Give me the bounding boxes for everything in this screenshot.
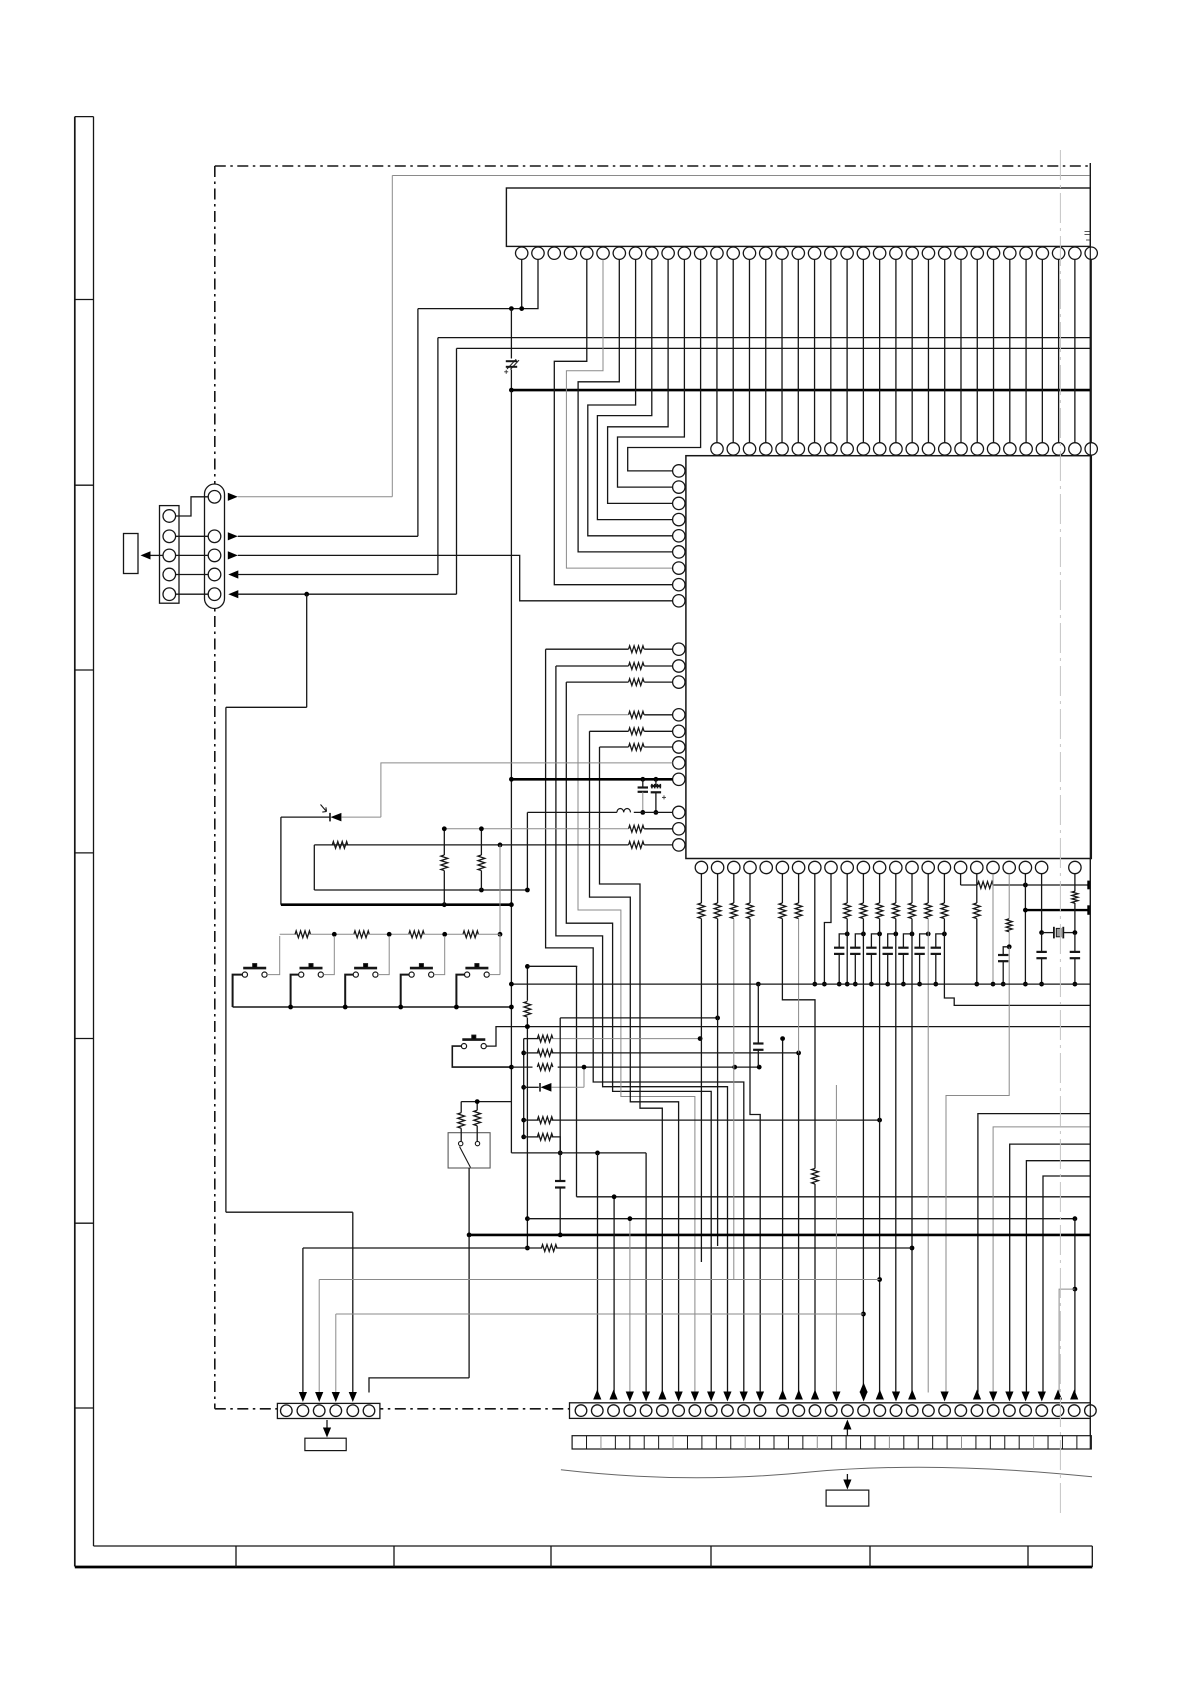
wire: branch from pin5 wire down and around to bottom connector CN-C pin5	[306, 594, 308, 707]
wire: IC bottom pin21 x=1025.4 drop: dot y=885, thick stub y=910.1, to rail	[1024, 874, 1026, 984]
designation box under wavy line with arrow	[846, 1474, 848, 1483]
fold mark: light grey vertical fold line (drawn on top)	[1059, 150, 1061, 1518]
wire: CN-D pin5 riser	[645, 1153, 647, 1393]
wire: CN-A pin1 grey wire right then up to top grey line	[238, 496, 392, 498]
wire: CN-A pin3 to IC pin A9 (down jog at x=519.7)	[238, 555, 673, 600]
wire y=1101.6 node to x=511.4	[461, 1101, 511, 1103]
resistor R-B3 on IC pin y=682.1	[644, 681, 672, 683]
harness wire from right edge y=1144.1 down at x=1009.7 to CN-D pin27	[1010, 1144, 1091, 1392]
wire y=1279.5 grey from CN-C pin3 to x=879.6	[318, 1280, 320, 1393]
component: small box (remote sensor) left of CN-B	[124, 534, 139, 574]
wire: CN-B pin4 to CN-A pin4	[176, 574, 209, 576]
board outline: chain-dot boundary bottom horizontal	[215, 1408, 1091, 1410]
wire: CN-D pin4 grey riser to line y=1218.7	[629, 1219, 631, 1393]
wire: photodiode anode down to thick key common rail	[280, 817, 282, 905]
wire: IC bottom pin20 x=1009.2 drop with resistor, cap tap, jog to CN-D pin23	[1008, 874, 1010, 919]
wire: IC bottom pin14 x=912.0 long drop with resistor to CN-D pin21	[911, 874, 913, 903]
wire bundle: straight drops top row to IC top pins	[716, 259, 718, 442]
connector CN-top partial pin circle at border	[1085, 247, 1097, 259]
wire: CN-D pin2 riser to y=1152.9	[597, 1153, 599, 1393]
capacitor C-b935 tap from pin vertical x=944.4	[936, 934, 945, 948]
wire: B3 route down-right zigzag staircase to CN-D pin9	[566, 682, 711, 1392]
wire: IC bottom pin10 x=847.2 drop with resistor	[846, 874, 848, 903]
resistor R-D3 line from IC pin y=844.9	[644, 844, 672, 846]
wire: D2 line corner up to y=1067.1	[583, 1067, 585, 1087]
capacitor C-f2 (electrolytic) at x=655.9	[655, 779, 657, 786]
wire: CN-D pin13 riser from R-t1 node	[782, 1039, 784, 1393]
stub: rail tap down to capacitor C-s2 x=758.3	[756, 982, 761, 987]
wire: SW6 left contact to y=1067.1 line	[452, 1046, 511, 1067]
wire: C3 route down-right zigzag staircase to CN-D pin6	[600, 747, 663, 1393]
connector CN-top: pin circles row	[516, 247, 528, 259]
resistor R-p2 vertical x=481.4	[478, 855, 485, 871]
wire: IC bottom pin7 x=798.6 grey drop with resistor to node y=1052.9 and CN-D pin14 riser	[798, 874, 800, 903]
wire: top pin c10 jog down-left to IC U1 left pin (y=503.4)	[608, 259, 673, 503]
sheet border: bottom inner frame line	[94, 1545, 1093, 1547]
thick key common rail y=904.7	[281, 903, 512, 906]
sheet border: bottom outer frame line (thick)	[75, 1566, 1093, 1569]
push switch SW6 near x=474	[461, 1044, 466, 1049]
wire y=1248.0 from CN-C pin2 with resistor R-u1 to x=912	[302, 1248, 304, 1393]
wire: IC bottom pin17 x=960.6 drop to y=885 with series resistor to edge terminal	[960, 874, 962, 885]
junction on net A at x=511.4	[509, 306, 514, 311]
resistor R-k0 on line y=844.9	[332, 842, 348, 849]
wire: top pin 1 drop to net A	[521, 259, 523, 308]
connector CN-C: 6-pin bottom-left connector body	[277, 1403, 380, 1418]
diode D2 on line y=1087.3	[524, 1086, 539, 1088]
wire: R-D3 net left leg down and along y=890 to x=527.4	[313, 845, 315, 890]
wire: top pin c11 jog down-left to IC U1 left pin (y=487.1)	[618, 259, 685, 487]
wire: IC bottom pin15 x=928.2 grey long drop with resistor to CN-D pin22	[927, 874, 929, 903]
wire: CN-B pin5 to CN-A pin5	[176, 593, 209, 595]
wire: IC bottom pin16 x=944.4 drop turning right at y=1005.4 to right edge	[943, 874, 945, 903]
inductor L1 on wire y=812.4	[634, 811, 673, 813]
arrow: CN-A pin4 input arrow left	[228, 570, 238, 578]
wire: IC bottom pin22 x=1041.6 drop to crystal node and cap	[1041, 874, 1043, 933]
harness wire from right edge y=1176.0 down at x=1043.0 to CN-D pin29	[1043, 1176, 1090, 1393]
wire: rotary switch common down to thick rail and CN-C pin6	[468, 1168, 470, 1235]
board outline: chain-dot boundary top horizontal	[215, 165, 1091, 167]
wire: IC bottom pin9 x=831.0 drop jog left to rail	[824, 874, 831, 984]
wire: top pin c8 jog down-left to IC U1 left pin (y=535.8)	[588, 259, 673, 535]
wire: SW3 right contact jog up to ladder	[378, 936, 389, 975]
wire: SW2 left contact thick leg down to common	[291, 975, 299, 1007]
connector CN-top: long rectangle body	[506, 188, 1090, 246]
harness wire from right edge y=1160.7 down at x=1026.4 to CN-D pin28	[1026, 1161, 1090, 1393]
capacitor C-b855 tap from pin vertical x=863.4	[855, 934, 863, 948]
wire: CN-B pin2 to CN-A pin2	[176, 535, 209, 537]
bus wire: thick horizontal power bus y=390.1	[511, 389, 1090, 392]
wire y=1017.9 from x=560.2 to IC pin drop x=717.6	[560, 1017, 717, 1019]
wire: IC bottom pin1 x=701.4 drop with resistor to node y=1038.6	[700, 874, 702, 903]
designation box under CN-C	[305, 1438, 346, 1450]
net A: horizontal wire y=308.6	[418, 308, 523, 310]
wire: SW6 right contact up to node y=1026.6	[486, 1027, 527, 1047]
IC U1: large QFP body rectangle	[686, 456, 1091, 859]
crystal X1 between x=1041.6 and x=1074.9	[1042, 932, 1054, 934]
display flex bar: hatched rectangle	[572, 1436, 1091, 1449]
wire: x=527.4 chain vertical with resistor R-s0	[526, 966, 528, 1000]
wire: C4 IC pin y=762.9 long wire left then down to photodiode	[381, 763, 673, 817]
wire: vertical x=576.5 down to long line y=1196.8	[576, 966, 578, 1196]
wire: vertical tap from net A down to thick rail, via capacitor C-osc	[510, 309, 512, 359]
resistor R-t1 grey line y=1038.6 to x=700.1	[524, 1038, 539, 1040]
keypad common return wire y=1007	[233, 1006, 512, 1008]
wire: SW5 left contact thick leg down to common	[456, 975, 464, 1007]
thick power wire into IC pin y=779.3	[511, 778, 672, 781]
push switch SW4: contacts and actuator	[409, 972, 414, 977]
harness wire from right edge y=1126.9 down at x=993.1 (grey) to CN-D pin26	[993, 1127, 1090, 1393]
wire: IC bottom pin3 x=733.8 grey long drop	[733, 874, 735, 903]
wire: SW1 left contact thick leg down to common	[233, 975, 243, 1007]
wire with left arrow into sensor box from CN-B pin3	[151, 554, 164, 556]
junction: grey riser x=500 top	[498, 843, 503, 848]
photodiode D1 with light arrow	[331, 813, 342, 822]
capacitor C-b919 tap from pin vertical x=928.2	[920, 934, 929, 948]
wire: CN-A pin2 to net A riser x=417.9	[238, 535, 418, 537]
connector CN-D: long 31-pin bottom connector body	[570, 1403, 1091, 1419]
IC U1: top pin circles row	[711, 443, 723, 455]
wire: SW2 right contact jog up to ladder	[323, 936, 334, 975]
arrow up from display bar into CN-D pin17	[846, 1429, 848, 1436]
thick terminal wire y=910.1 to edge bar	[1025, 909, 1088, 911]
wire: top pin c12 jog down-left to IC U1 left pin (y=470.9)	[628, 259, 701, 471]
arrow: CN-A pin5 input arrow left	[228, 590, 238, 598]
wire: B2 route down-right zigzag staircase to CN-D pin10	[556, 666, 728, 1393]
arrows on CN-D pins	[593, 1390, 601, 1400]
junction: thick rail meets x=511.4 vertical	[509, 388, 514, 393]
resistor R-t2 line y=1052.9 to x=798.6	[524, 1052, 539, 1054]
terminal bar at right edge y=885	[1087, 881, 1090, 890]
wire: LC filter line left then down via x=527.4	[527, 811, 617, 813]
wire: CN-B pin3 to CN-A pin3	[176, 554, 209, 556]
tiny clipped text fragment at right drawing edge	[1085, 231, 1090, 233]
push switch SW5: contacts and actuator	[465, 972, 470, 977]
connector CN-A: pin circles	[208, 491, 221, 504]
capacitor C-b903 tap from pin vertical x=912.0	[903, 934, 912, 948]
sheet border: right drawing-edge line	[1089, 163, 1091, 1449]
wire y=1152.9 from x=511.4 to CN-D pin5 riser	[511, 1152, 646, 1154]
wire: x=1074.9 drop with branch jog to CN-D pin30 (grey) and pin31	[1074, 1219, 1076, 1289]
double arrow on CN-D pin 18 wire	[860, 1383, 868, 1393]
resistor R-r1 above rotary switch	[458, 1113, 465, 1129]
connector CN-B: pin circles	[163, 510, 176, 523]
junction x=511.4 y=1067.1	[509, 1065, 514, 1070]
wire: IC bottom pin12 x=879.6 long drop with resistor to CN-D pin19	[879, 874, 881, 903]
wire: long vertical x=511.4 from thick rail down through lower nets	[510, 390, 512, 1153]
resistor R-C3 on IC pin y=747.0	[644, 746, 672, 748]
grey routed wire x=836.4 down to connector region	[835, 1085, 837, 1399]
wire: IC bottom pin24 x=1074.9 drop with resistor, cap to rail	[1074, 874, 1076, 892]
vertical x=560.2 from y=1017.9 down to thick rail with capacitor C-s1	[559, 1018, 561, 1181]
resistor R-t4 line y=1120.1 to x=879.6	[524, 1119, 539, 1121]
junction dots on LC line y=812.4	[640, 810, 645, 815]
sheet border: left frame tick marks	[75, 299, 94, 301]
junction y=966.4 line from x=527.4 to x=577.3	[527, 965, 577, 967]
wire: top pin c5 jog down-left to IC U1 left pin (y=584.7)	[554, 259, 672, 584]
wire: SW5 right contact jog up to ladder	[489, 974, 500, 976]
resistor R-B1 on IC pin y=649.2	[644, 648, 672, 650]
long wire y=1196.8 to right edge	[577, 1196, 1091, 1198]
resistor R-C1 on IC pin y=714.8 (grey net)	[644, 714, 672, 716]
rotary switch SW7 contacts	[459, 1141, 463, 1145]
junction on net A at x=521.7	[519, 306, 524, 311]
junction dots on thick pin wire	[509, 777, 514, 782]
arrow: CN-A pin3 output arrow right	[228, 551, 238, 559]
wire: IC bottom pin19 x=993.0 grey drop ending at rail	[992, 874, 994, 984]
wire: top pin c7 jog down-left to IC U1 left pin (y=551.9)	[578, 259, 673, 552]
arrows into CN-C pins 2-5	[299, 1392, 307, 1402]
capacitor C-x1 x=1003.2 tap	[1003, 947, 1009, 955]
sheet border: top cap of left frame	[75, 116, 94, 118]
key ladder wire y=934.3 with resistors	[280, 933, 297, 935]
resistor R-B2 on IC pin y=666.0	[644, 665, 672, 667]
line y=1067.1 with resistor R-s3 to cap x=759.2	[511, 1066, 532, 1068]
capacitor C-b871 tap from pin vertical x=879.6	[871, 934, 879, 948]
push switch SW3: contacts and actuator	[353, 972, 358, 977]
wire: IC bottom pin13 x=895.8 long drop with resistor to CN-D pin20	[895, 874, 897, 903]
capacitor C-f1 (ceramic) at x=642.8	[642, 779, 644, 787]
ground rail under IC y=984.1	[511, 983, 1090, 985]
wire: SW4 right contact jog up to ladder	[434, 936, 445, 975]
wire: top pin 2 drop with jog to net A	[523, 259, 538, 308]
bus wire: thin horizontal bus y=348.4	[457, 347, 1091, 349]
wire: CN-A pin4 from bus y=337.6 riser x=437.9	[237, 574, 438, 576]
capacitor C-b839 tap from pin vertical x=847.2	[839, 934, 847, 948]
capacitor C-b887 tap from pin vertical x=895.8	[888, 934, 896, 948]
capacitor C-osc: small polarized capacitor symbol on x=511.4	[506, 360, 517, 362]
wire y=1314.0 grey from CN-C pin4 to x=863.4	[335, 1314, 337, 1393]
resistor R-t5 line y=1136.9 corner down to y=1152.9	[524, 1136, 539, 1138]
push switch SW2: contacts and actuator	[299, 972, 304, 977]
wire: SW3 left contact thick leg down to common	[345, 975, 353, 1007]
sheet border: right drawing-edge line (over clipped parts)	[1089, 163, 1091, 1449]
wire: IC bottom pin11 x=863.4 long drop with resistor to CN-D pin18	[862, 874, 864, 903]
wire: C2 route down-right zigzag staircase to CN-D pin7	[590, 731, 679, 1392]
wire: C1 grey route down-right zigzag staircase to CN-D pin8	[578, 715, 695, 1393]
junction on CN-A pin5 wire	[304, 592, 309, 597]
board outline: chain-dot boundary left vertical	[214, 166, 216, 1409]
push switch SW1: contacts and actuator	[242, 972, 247, 977]
rotary selector switch SW7: body box	[448, 1133, 490, 1168]
IC U1 partial top pin circle at border	[1085, 443, 1097, 455]
IC U1: bottom pin circles	[695, 861, 707, 873]
long wire y=1218.7 from x=527.4 to x=1074.9	[527, 1218, 1075, 1220]
resistor stack R-t1/R-t2/R-t3 left vertical x=523.7	[523, 1039, 525, 1137]
sheet border: outer left frame line	[74, 117, 76, 1567]
wire: CN-A pin5 from bus y=348.4 riser x=456.5	[237, 593, 456, 595]
wire: B1 route down-right zigzag staircase to CN-D pin11	[546, 649, 744, 1392]
wire: IC bottom pin4 x=750.0 drop with resistor to jog feeding CN-D pin12	[749, 874, 751, 903]
sheet border: bottom frame tick marks	[235, 1546, 237, 1567]
wire: jog y=966.4 from x=527.4 node to riser x=576.5	[527, 965, 576, 967]
resistor R-C2 on IC pin y=731.3	[644, 730, 672, 732]
connector CN-D pin circles	[575, 1405, 587, 1417]
wire: CN-D pin3 riser to long line y=1196.8	[613, 1197, 615, 1393]
wire: IC bottom pin8 x=814.8 drop to rail junction	[814, 874, 816, 984]
arrow below CN-C to designation box	[326, 1420, 328, 1431]
wire: top pin c9 jog down-left to IC U1 left pin (y=519.6)	[597, 259, 672, 519]
resistor R-p1 vertical x=444.3	[441, 855, 448, 871]
bus wire: thin horizontal bus y=337.6	[438, 337, 1090, 339]
sheet border: inner left frame line	[93, 117, 95, 1546]
wire: SW1 right contact jog up to ladder	[267, 936, 280, 975]
connector CN-B: rectangular 5-pin header	[160, 506, 180, 604]
wire: IC bottom pin6 x=782.4 drop with resistor turning right at y=999.8	[781, 874, 783, 903]
wavy tear line under display bar	[561, 1467, 1092, 1478]
IC U1: left pin circles	[673, 465, 685, 477]
arrow: CN-A pin1 output arrow right	[228, 493, 238, 501]
harness wire from right edge y=1113.6 down at x=977.9 to CN-D pin25	[978, 1114, 1090, 1393]
thick bus wire y=1234.9 from x=468.6 to right edge	[469, 1234, 1091, 1237]
connector CN-D partial last pin circle at border	[1085, 1405, 1097, 1417]
wire: IC bottom pin2 x=717.6 drop with resistor to node y=1017.9	[717, 874, 719, 903]
rotary switch SW7 lever	[460, 1147, 471, 1168]
wire: top pin c6 jog down-left to IC U1 left pin (y=568.1)	[566, 259, 672, 568]
arrow: CN-A pin2 output arrow right	[228, 532, 238, 540]
wire: grey signal line below top boundary to right edge	[392, 175, 1090, 177]
resistor R-D2 grey line from IC pin y=828.8	[644, 828, 672, 830]
wire: CN-B pin1 jog up to CN-A pin1	[176, 497, 209, 516]
junction x=527.4 y=1026.6 and long wire to right edge	[525, 1024, 530, 1029]
connector CN-C pin circles	[281, 1405, 293, 1417]
sheet border: bottom-right frame end cap	[1091, 1546, 1093, 1567]
wire: IC bottom pin18 x=976.8 drop to CN-D pin25 riser is from right-edge harness (no drop)	[976, 874, 978, 903]
resistor R-r2 above rotary switch	[474, 1110, 481, 1126]
connector CN-A: stadium shaped 5-pin connector on boundary	[205, 484, 225, 609]
wire: SW4 left contact thick leg down to common	[401, 975, 409, 1007]
wire: partial top pin drop at border	[1090, 259, 1092, 442]
resistor R-v1 vertical on CN-D pin15 riser	[812, 1168, 819, 1184]
